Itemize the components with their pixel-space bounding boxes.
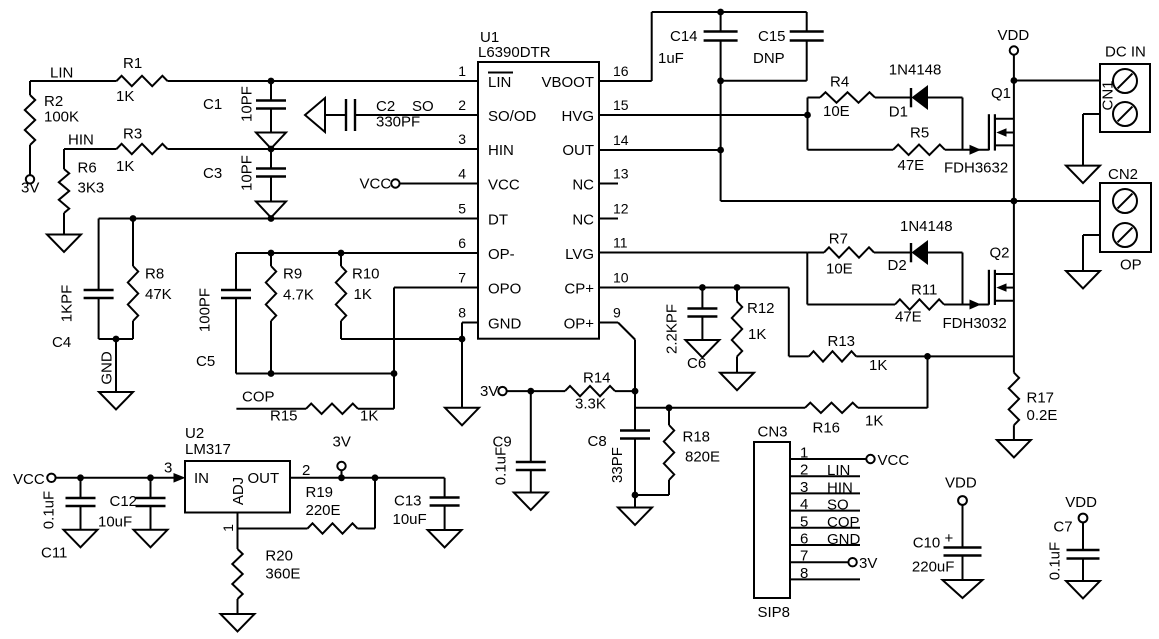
svg-text:C10: C10 (913, 535, 941, 552)
svg-text:R20: R20 (265, 548, 293, 565)
svg-text:0.1uF: 0.1uF (493, 447, 510, 485)
svg-text:HIN: HIN (827, 479, 853, 496)
svg-text:47E: 47E (898, 157, 925, 174)
svg-text:CN2: CN2 (1108, 166, 1138, 183)
svg-text:1N4148: 1N4148 (889, 62, 942, 79)
svg-text:GND: GND (99, 351, 116, 385)
svg-text:NC: NC (572, 177, 594, 194)
svg-text:HVG: HVG (561, 108, 594, 125)
svg-text:0.2E: 0.2E (1027, 407, 1058, 424)
svg-text:2.2KPF: 2.2KPF (664, 304, 681, 354)
svg-text:3: 3 (164, 460, 172, 477)
svg-text:330PF: 330PF (376, 114, 420, 131)
svg-text:2: 2 (800, 462, 808, 479)
svg-text:R8: R8 (145, 266, 164, 283)
svg-text:220E: 220E (306, 502, 341, 519)
svg-text:FDH3032: FDH3032 (943, 315, 1007, 332)
svg-text:3: 3 (458, 131, 466, 147)
svg-text:SIP8: SIP8 (758, 604, 791, 621)
svg-text:HIN: HIN (488, 142, 514, 159)
svg-text:C7: C7 (1053, 519, 1072, 536)
svg-text:5: 5 (800, 513, 808, 530)
svg-text:1KPF: 1KPF (59, 285, 76, 323)
svg-text:C4: C4 (52, 334, 71, 351)
svg-text:OPO: OPO (488, 281, 521, 298)
svg-text:DNP: DNP (753, 50, 785, 67)
svg-text:SO: SO (827, 497, 849, 514)
svg-text:GND: GND (488, 316, 522, 333)
svg-text:R13: R13 (828, 333, 856, 350)
svg-text:10uF: 10uF (98, 514, 132, 531)
svg-text:CN3: CN3 (758, 424, 788, 441)
svg-text:33PF: 33PF (609, 447, 626, 483)
svg-text:1K: 1K (869, 357, 887, 374)
svg-text:12: 12 (613, 201, 629, 217)
svg-text:6: 6 (800, 531, 808, 548)
svg-text:R9: R9 (283, 266, 302, 283)
svg-text:820E: 820E (685, 449, 720, 466)
svg-text:8: 8 (800, 565, 808, 582)
svg-text:47E: 47E (895, 309, 922, 326)
svg-text:1K: 1K (116, 158, 134, 175)
svg-text:COP: COP (242, 389, 275, 406)
svg-text:R7: R7 (829, 231, 848, 248)
svg-text:8: 8 (458, 305, 466, 321)
svg-text:Q1: Q1 (991, 85, 1011, 102)
svg-text:C3: C3 (203, 165, 222, 182)
svg-text:1: 1 (220, 524, 236, 532)
svg-text:3K3: 3K3 (78, 180, 105, 197)
svg-text:1: 1 (800, 445, 808, 462)
svg-text:C5: C5 (196, 353, 215, 370)
svg-text:SO/OD: SO/OD (488, 108, 537, 125)
svg-text:VCC: VCC (878, 452, 910, 469)
svg-text:3V: 3V (333, 434, 351, 451)
svg-text:R1: R1 (123, 55, 142, 72)
svg-text:9: 9 (613, 305, 621, 321)
svg-text:14: 14 (613, 132, 629, 148)
svg-text:R17: R17 (1027, 390, 1055, 407)
svg-text:C12: C12 (110, 493, 138, 510)
svg-text:R4: R4 (830, 74, 849, 91)
svg-text:OP+: OP+ (564, 316, 595, 333)
svg-text:R16: R16 (813, 420, 841, 437)
svg-text:5: 5 (458, 201, 466, 217)
svg-text:3V: 3V (21, 180, 39, 197)
svg-text:1K: 1K (360, 408, 378, 425)
svg-text:10PF: 10PF (239, 86, 256, 122)
svg-text:4.7K: 4.7K (283, 287, 314, 304)
svg-text:DT: DT (488, 212, 508, 229)
svg-text:OP: OP (1120, 257, 1142, 274)
svg-text:16: 16 (613, 63, 629, 79)
svg-text:OUT: OUT (248, 470, 280, 487)
svg-text:100K: 100K (44, 109, 79, 126)
svg-text:1K: 1K (116, 88, 134, 105)
svg-text:D2: D2 (888, 257, 907, 274)
svg-text:VCC: VCC (360, 176, 392, 193)
svg-text:L6390DTR: L6390DTR (478, 44, 551, 61)
svg-text:R5: R5 (910, 125, 929, 142)
svg-text:R2: R2 (44, 93, 63, 110)
svg-text:C15: C15 (758, 28, 786, 45)
svg-text:SO: SO (412, 98, 434, 115)
svg-text:VDD: VDD (945, 475, 977, 492)
svg-text:LIN: LIN (50, 65, 73, 82)
svg-text:CP+: CP+ (564, 281, 594, 298)
svg-text:C11: C11 (41, 545, 67, 562)
svg-text:1: 1 (458, 63, 466, 79)
svg-text:R6: R6 (78, 160, 97, 177)
svg-text:3V: 3V (859, 555, 877, 572)
svg-text:IN: IN (194, 470, 209, 487)
svg-text:2: 2 (302, 462, 310, 479)
svg-text:C6: C6 (687, 355, 706, 372)
svg-text:R10: R10 (352, 266, 380, 283)
svg-text:13: 13 (613, 166, 629, 182)
svg-text:0.1uF: 0.1uF (41, 491, 58, 529)
svg-text:11: 11 (613, 235, 628, 251)
svg-text:6: 6 (458, 235, 466, 251)
svg-text:R14: R14 (583, 370, 611, 387)
svg-text:10: 10 (613, 270, 629, 286)
svg-text:C14: C14 (670, 28, 698, 45)
svg-text:DC IN: DC IN (1105, 44, 1146, 61)
svg-text:LVG: LVG (565, 246, 594, 263)
svg-text:15: 15 (613, 97, 629, 113)
svg-text:10E: 10E (823, 103, 850, 120)
svg-text:R11: R11 (911, 282, 937, 299)
svg-text:R18: R18 (683, 429, 711, 446)
svg-text:C8: C8 (588, 433, 607, 450)
svg-text:10PF: 10PF (239, 155, 256, 191)
svg-text:47K: 47K (145, 286, 172, 303)
svg-text:4: 4 (458, 166, 466, 182)
svg-text:NC: NC (572, 212, 594, 229)
svg-text:VDD: VDD (1065, 494, 1097, 511)
svg-text:+: + (945, 530, 954, 547)
svg-text:VCC: VCC (488, 177, 520, 194)
svg-text:U2: U2 (185, 425, 204, 442)
svg-text:1uF: 1uF (658, 50, 684, 67)
svg-text:VDD: VDD (998, 27, 1030, 44)
svg-text:4: 4 (800, 496, 808, 513)
svg-text:1K: 1K (865, 413, 883, 430)
svg-text:100PF: 100PF (197, 288, 214, 332)
svg-text:Q2: Q2 (990, 245, 1010, 262)
svg-text:R12: R12 (747, 300, 775, 317)
svg-text:COP: COP (827, 514, 860, 531)
svg-text:R15: R15 (270, 408, 298, 425)
svg-text:360E: 360E (265, 566, 300, 583)
svg-text:7: 7 (800, 548, 808, 565)
svg-text:ADJ: ADJ (230, 477, 247, 505)
svg-text:LIN: LIN (827, 462, 850, 479)
svg-text:0.1uF: 0.1uF (1047, 542, 1064, 580)
svg-text:R3: R3 (123, 126, 142, 143)
svg-text:D1: D1 (889, 104, 908, 121)
svg-text:CN1: CN1 (1100, 80, 1117, 110)
svg-text:1K: 1K (354, 286, 372, 303)
svg-text:OUT: OUT (562, 142, 594, 159)
svg-text:3.3K: 3.3K (575, 396, 606, 413)
svg-text:C1: C1 (203, 96, 222, 113)
svg-text:2: 2 (458, 97, 466, 113)
svg-text:C13: C13 (394, 493, 422, 510)
svg-text:10E: 10E (826, 261, 853, 278)
svg-text:LM317: LM317 (185, 441, 231, 458)
svg-text:3: 3 (800, 479, 808, 496)
svg-text:3V: 3V (480, 383, 498, 400)
svg-text:7: 7 (458, 270, 466, 286)
svg-text:OP-: OP- (488, 246, 515, 263)
svg-text:HIN: HIN (68, 132, 94, 149)
svg-text:220uF: 220uF (912, 559, 955, 576)
svg-text:1K: 1K (748, 326, 766, 343)
svg-text:FDH3632: FDH3632 (944, 160, 1008, 177)
svg-text:1N4148: 1N4148 (900, 218, 953, 235)
svg-text:C2: C2 (376, 98, 395, 115)
svg-text:VCC: VCC (13, 471, 45, 488)
svg-text:LIN: LIN (488, 74, 511, 91)
svg-text:10uF: 10uF (393, 511, 427, 528)
svg-text:GND: GND (827, 531, 861, 548)
svg-text:R19: R19 (306, 484, 334, 501)
svg-text:VBOOT: VBOOT (541, 74, 594, 91)
